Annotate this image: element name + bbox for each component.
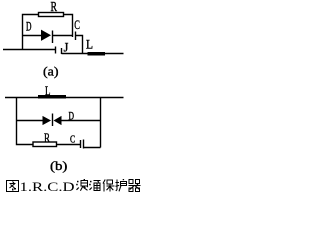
wire: (a) resistor right lead, top-right corner, down to capacitor left plate bbox=[64, 15, 73, 38]
contact J1 right tick bbox=[61, 48, 63, 54]
capacitor C2 (circuit b) right plate bbox=[83, 140, 85, 149]
inductor L2 (circuit b) thick bar bbox=[38, 95, 66, 99]
wire: circuit (a) left feed line bbox=[3, 49, 56, 51]
svg-text:L: L bbox=[45, 84, 51, 98]
diode D1 (circuit a) triangle bbox=[42, 31, 51, 41]
caption hanzi: 图 bbox=[7, 181, 19, 192]
wire: (a) capacitor right lead down to lower line bbox=[76, 36, 83, 54]
svg-text:(b): (b) bbox=[50, 158, 67, 173]
caption hanzi: 护 bbox=[116, 179, 127, 191]
capacitor C1 (circuit a) right plate bbox=[75, 32, 77, 41]
svg-text:(a): (a) bbox=[43, 64, 59, 79]
wire: (b) loop left vertical down to bottom branch bbox=[17, 98, 34, 145]
svg-text:R: R bbox=[44, 130, 50, 145]
wire: (a) diode cathode to capacitor bbox=[53, 35, 73, 37]
svg-text:J: J bbox=[64, 39, 69, 54]
diode D3 (circuit b) right triangle bbox=[55, 117, 62, 125]
wire: (b) diode branch right segment bbox=[61, 120, 101, 122]
wire: (a) loop left vertical + top branch to resistor bbox=[23, 15, 39, 50]
diode D1 cathode bar bbox=[52, 31, 54, 44]
svg-text:C: C bbox=[74, 17, 80, 32]
wire: (b) diode branch left segment bbox=[17, 120, 44, 122]
svg-text:D: D bbox=[69, 109, 75, 123]
caption hanzi: 涌 bbox=[89, 181, 100, 191]
wire: (b) resistor to capacitor bbox=[57, 144, 81, 146]
contact J1 left tick bbox=[55, 47, 57, 54]
svg-text:R: R bbox=[51, 0, 58, 15]
diode D2 (circuit b) left triangle bbox=[43, 117, 50, 125]
svg-text:C: C bbox=[70, 133, 75, 145]
diode D2/D3 shared cathode bar bbox=[52, 114, 54, 127]
svg-text:1.R.C.D: 1.R.C.D bbox=[20, 180, 75, 194]
wire: circuit (b) top line bbox=[5, 97, 124, 99]
inductor L1 (circuit a) thick bar bbox=[88, 52, 106, 56]
resistor R2 (circuit b) body bbox=[33, 142, 57, 147]
svg-text:L: L bbox=[86, 37, 93, 52]
wire: (a) right line to inductor and output bbox=[62, 53, 124, 55]
resistor R1 (circuit a) body bbox=[39, 13, 64, 17]
capacitor C2 (circuit b) left plate bbox=[80, 140, 82, 148]
caption hanzi: 保 bbox=[103, 180, 114, 192]
wire: (a) diode branch from left vertical bbox=[23, 35, 43, 37]
svg-text:D: D bbox=[26, 19, 32, 34]
wire: (b) capacitor to bottom-right corner bbox=[84, 147, 101, 149]
caption hanzi: 浪 bbox=[76, 179, 87, 191]
caption hanzi: 器 bbox=[128, 180, 140, 192]
wire: (b) loop right vertical bbox=[100, 98, 102, 148]
